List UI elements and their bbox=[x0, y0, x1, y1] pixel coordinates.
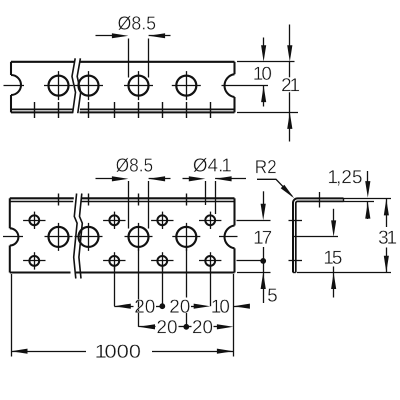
section large-row centerline bbox=[293, 236, 338, 238]
view1 hole #1 crosshair bbox=[44, 71, 73, 100]
view2 hole Ø4.1 top #1 crosshair bbox=[23, 212, 45, 229]
ext line large-col3 (row2) bbox=[138, 248, 140, 327]
dim Ø8.5 (view2) text bbox=[116, 158, 152, 172]
section bottom extension line bbox=[297, 272, 391, 274]
dim Ø8.5 (view1) line bbox=[96, 33, 171, 38]
section top inner extension line bbox=[344, 201, 375, 203]
dim Ø8.5 (view2) extension lines bbox=[129, 181, 149, 229]
view1 hole Ø8.5 #2 bbox=[79, 76, 99, 96]
dim 21 (view1) bbox=[282, 25, 299, 142]
ext line large-col4 (row2) bbox=[186, 248, 188, 327]
view2 hole Ø8.5 #2 crosshair bbox=[75, 223, 103, 251]
view2 hole Ø4.1 bottom #1 bbox=[29, 256, 39, 266]
view2 top outer edge bbox=[10, 197, 235, 199]
dim 20 row2 seg2 bbox=[186, 320, 233, 333]
view2 hole Ø4.1 bottom #2 crosshair bbox=[103, 252, 125, 269]
view1 hole #3 crosshair bbox=[124, 71, 153, 100]
view2 hole Ø4.1 top #2 crosshair bbox=[103, 212, 125, 229]
view2 hole Ø4.1 top #2 bbox=[109, 215, 119, 225]
view2 hole Ø8.5 #2 bbox=[79, 227, 99, 247]
view1 right notch centerline / dim10 extension bbox=[222, 85, 269, 87]
view2 hole Ø4.1 top #4 bbox=[205, 215, 215, 225]
dim Ø8.5 (view2) line bbox=[96, 176, 171, 181]
view2 hole Ø8.5 #1 bbox=[49, 227, 69, 247]
view2 hole Ø4.1 top #3 bbox=[157, 215, 167, 225]
dim 15 bbox=[325, 209, 342, 298]
dim 1,25 arrows bbox=[365, 171, 370, 219]
dim Ø8.5 (view1) text bbox=[118, 16, 155, 30]
row1 ext line small-col4 bbox=[210, 267, 212, 307]
section small-row tick top bbox=[289, 220, 303, 222]
view1 ext line bottom-right bbox=[237, 112, 298, 114]
dim 20 row1 seg1 bbox=[114, 300, 164, 313]
dim 31 bbox=[379, 198, 396, 272]
view2 ext line bottom right bbox=[237, 272, 271, 274]
dim 10 (view1) bbox=[254, 38, 271, 107]
dim 20 row1 seg2 bbox=[170, 300, 210, 313]
view1 hole #2 crosshair bbox=[74, 71, 103, 100]
view2 hole Ø4.1 bottom #3 bbox=[157, 256, 167, 266]
view1 hole #4 crosshair bbox=[172, 71, 201, 100]
left edge extension line bbox=[11, 274, 13, 357]
dim Ø4.1 line bbox=[183, 176, 247, 181]
dim 17 bbox=[255, 191, 272, 272]
view1 left edge with notch bbox=[11, 62, 21, 113]
view1 bottom edge (bend line) bbox=[11, 108, 235, 110]
view1 bottom outer edge bbox=[11, 111, 235, 113]
view2 left notch centerline bbox=[3, 236, 23, 238]
view1 hole Ø8.5 #1 bbox=[49, 76, 69, 96]
dim Ø4.1 extension lines bbox=[206, 181, 216, 214]
section top extension line bbox=[344, 198, 392, 200]
view2 hole Ø8.5 #1 crosshair bbox=[45, 223, 73, 251]
view2 hole Ø4.1 bottom #4 bbox=[205, 256, 215, 266]
view2 left edge with notch bbox=[10, 198, 19, 272]
view1 top edge bbox=[11, 61, 235, 63]
view2 break line bbox=[74, 194, 83, 279]
view1 hole-column ticks on bottom edge bbox=[35, 102, 211, 118]
view2 hole Ø8.5 #4 crosshair bbox=[172, 223, 200, 251]
dim 10 row1 seg3 bbox=[212, 300, 250, 313]
dim Ø8.5 (view1) extension lines bbox=[129, 39, 149, 78]
view2 hole Ø8.5 #4 bbox=[176, 227, 196, 247]
dim Ø4.1 text bbox=[193, 158, 231, 172]
view2 hole Ø4.1 top #1 bbox=[29, 215, 39, 225]
view2 top inner edge (bend) bbox=[10, 201, 235, 203]
dim 5 bbox=[261, 273, 277, 304]
view2 hole Ø8.5 #3 bbox=[129, 227, 149, 247]
view2 ext line small-row-top right bbox=[237, 220, 271, 222]
view2 hole-column ticks on top edge bbox=[59, 194, 187, 206]
view2 right notch centerline bbox=[219, 236, 238, 238]
view1 ext line top-right bbox=[237, 61, 295, 63]
view2 ext line small-row-bottom right bbox=[237, 260, 261, 262]
view2 hole Ø4.1 bottom #3 crosshair bbox=[151, 252, 173, 269]
dim R2 leader bbox=[257, 179, 294, 198]
section small-row tick bottom bbox=[289, 260, 303, 262]
view2 hole Ø4.1 bottom #2 bbox=[109, 256, 119, 266]
view1 hole Ø8.5 #3 bbox=[129, 76, 149, 96]
section flange hole centerline tick bbox=[319, 192, 321, 208]
dim R2 text bbox=[256, 160, 276, 173]
view2 bottom edge bbox=[10, 271, 235, 273]
view1 break line bbox=[72, 58, 81, 113]
row1 ext line small-col3 bbox=[162, 267, 164, 307]
view1 left notch centerline bbox=[4, 85, 25, 87]
right edge extension line bbox=[233, 274, 235, 357]
section L-profile bbox=[293, 198, 344, 272]
view2 hole Ø4.1 bottom #1 crosshair bbox=[23, 252, 45, 269]
view2 hole Ø4.1 bottom #4 crosshair bbox=[199, 252, 221, 269]
view2 hole Ø4.1 top #4 crosshair bbox=[199, 212, 221, 229]
row1 ext line small-col2 bbox=[114, 267, 116, 307]
dim 20 row2 seg1 bbox=[139, 320, 189, 333]
view2 right edge with notch bbox=[225, 198, 235, 272]
dim 1000 bbox=[11, 345, 233, 358]
view2 hole Ø8.5 #3 crosshair bbox=[125, 223, 153, 251]
dim 1,25 text bbox=[329, 170, 362, 186]
view1 hole Ø8.5 #4 bbox=[176, 76, 196, 96]
view1 right edge with notch bbox=[225, 62, 235, 113]
view2 hole Ø4.1 top #3 crosshair bbox=[151, 212, 173, 229]
